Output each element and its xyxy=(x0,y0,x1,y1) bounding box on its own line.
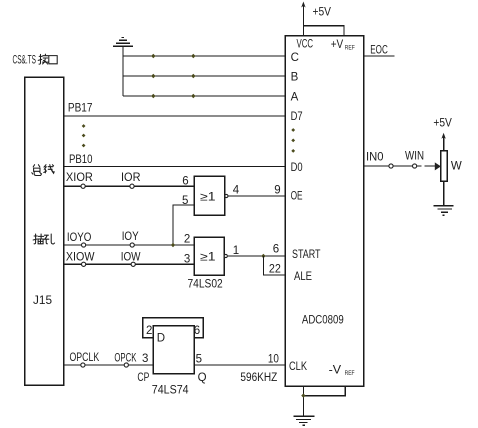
svg-text:PB17: PB17 xyxy=(68,103,93,115)
label 插孔 xyxy=(33,234,54,244)
svg-text:D: D xyxy=(157,333,165,345)
svg-text:START: START xyxy=(292,249,321,261)
svg-text:A: A xyxy=(291,92,299,104)
svg-text:2: 2 xyxy=(146,325,152,337)
svg-text:VCC: VCC xyxy=(297,39,314,51)
svg-text:EOC: EOC xyxy=(370,45,388,57)
wire -Vref to ground xyxy=(303,386,345,396)
title 口 glyph xyxy=(49,56,57,64)
wire IOYO xyxy=(64,244,194,246)
wire XIOW xyxy=(64,263,194,265)
test point circle XIOW xyxy=(82,262,86,266)
svg-text:2: 2 xyxy=(184,234,190,246)
svg-text:IOW: IOW xyxy=(121,252,141,264)
wire A line xyxy=(123,95,285,97)
+5V supply arrow (top) xyxy=(302,5,304,36)
svg-text:XIOR: XIOR xyxy=(66,172,93,184)
wire PB17/D7 xyxy=(64,115,285,117)
wire OPCLK xyxy=(64,364,153,366)
svg-text:IN0: IN0 xyxy=(366,152,384,164)
svg-text:6: 6 xyxy=(194,325,200,337)
svg-text:≥1: ≥1 xyxy=(200,252,216,264)
test point circle on XIOR xyxy=(81,184,85,188)
ground (right, below W) xyxy=(434,206,454,216)
svg-text:+V: +V xyxy=(331,39,344,51)
svg-text:3: 3 xyxy=(184,254,190,266)
svg-text:XIOW: XIOW xyxy=(66,252,95,264)
junction pin5/IOYO xyxy=(171,243,175,247)
wire Q to CLK xyxy=(194,364,285,366)
svg-text:1: 1 xyxy=(233,245,239,257)
svg-text:REF: REF xyxy=(345,370,355,377)
ellipsis D7..D0 xyxy=(291,128,295,153)
wire pin5 from IOYO xyxy=(173,205,194,245)
wire ALE branch xyxy=(263,256,285,275)
wire START net xyxy=(228,255,285,257)
output bubble U2A xyxy=(225,194,228,197)
svg-text:B: B xyxy=(291,72,299,84)
label 总线 xyxy=(32,165,54,176)
svg-text:ALE: ALE xyxy=(294,271,312,283)
wire C line xyxy=(123,55,285,57)
svg-text:74LS02: 74LS02 xyxy=(188,279,223,291)
svg-text:ADC0809: ADC0809 xyxy=(302,315,344,327)
wiper arrow into W xyxy=(435,162,441,170)
junction ground/-Vref xyxy=(301,393,305,397)
test point circle IN0 xyxy=(389,164,393,168)
D flip-flop U3 74LS74 body xyxy=(153,326,194,374)
svg-text:22: 22 xyxy=(269,264,281,276)
svg-text:IOY: IOY xyxy=(122,231,139,243)
test point circle IOR xyxy=(130,184,134,188)
svg-text:74LS74: 74LS74 xyxy=(152,385,189,397)
svg-text:6: 6 xyxy=(273,244,279,256)
svg-text:5: 5 xyxy=(196,354,202,366)
+5V supply arrow (right) xyxy=(443,136,445,151)
test point circle IOY xyxy=(130,243,134,247)
potentiometer W xyxy=(441,151,447,181)
svg-text:REF: REF xyxy=(345,45,355,52)
svg-text:CS&.TS: CS&.TS xyxy=(13,55,37,67)
svg-text:+5V: +5V xyxy=(313,7,332,19)
svg-text:-V: -V xyxy=(329,365,342,377)
svg-text:CLK: CLK xyxy=(289,361,307,373)
wire EOC xyxy=(364,55,395,57)
title 接 glyph xyxy=(38,54,48,64)
D flip-flop U3 74LS74 preset/clear box xyxy=(143,318,203,338)
svg-text:4: 4 xyxy=(233,185,240,197)
svg-text:W: W xyxy=(451,161,462,173)
NOR gate U2B 74LS02 xyxy=(194,237,224,275)
svg-text:C: C xyxy=(291,52,299,64)
svg-text:D0: D0 xyxy=(291,162,303,174)
test point circle WIN xyxy=(413,164,417,168)
svg-text:IOYO: IOYO xyxy=(67,232,92,244)
svg-text:PB10: PB10 xyxy=(69,154,93,166)
wire ADC ground stem xyxy=(302,386,304,416)
svg-text:6: 6 xyxy=(182,176,188,188)
wire +5V branch to +Vref xyxy=(303,26,344,36)
junction dots on A line xyxy=(151,94,195,98)
wire OE net xyxy=(229,195,285,197)
interface box J15 xyxy=(25,77,64,385)
test point circle IOYO xyxy=(82,243,86,247)
ground (bottom, ADC) xyxy=(293,416,314,425)
svg-text:10: 10 xyxy=(268,354,279,366)
svg-text:3: 3 xyxy=(142,353,148,365)
svg-text:≥1: ≥1 xyxy=(200,192,216,204)
junction START/ALE branch xyxy=(261,254,265,258)
svg-text:Q: Q xyxy=(198,372,207,384)
wire PB10/D0 xyxy=(64,165,285,167)
test point circle IOW xyxy=(131,262,135,266)
svg-text:CP: CP xyxy=(137,372,149,384)
wire ground stem to A xyxy=(122,46,124,96)
ADC0809 U1 box xyxy=(285,36,364,387)
svg-text:+5V: +5V xyxy=(433,118,452,130)
svg-text:9: 9 xyxy=(274,185,280,197)
wire B line xyxy=(123,75,285,77)
svg-text:WIN: WIN xyxy=(405,151,424,163)
svg-text:D7: D7 xyxy=(291,111,303,123)
wire IN0 xyxy=(364,165,437,167)
NOR gate U2A 74LS02 xyxy=(194,176,225,215)
ellipsis PB17..PB10 xyxy=(82,124,86,147)
wire W to ground xyxy=(443,181,445,205)
test point circle OPCK xyxy=(124,363,128,367)
svg-text:IOR: IOR xyxy=(121,172,141,184)
ground (top, for C B A inputs) xyxy=(113,37,133,46)
test point circle OPCLK xyxy=(81,363,85,367)
wire XIOR xyxy=(64,185,194,187)
svg-text:OPCLK: OPCLK xyxy=(70,352,100,364)
svg-text:596KHZ: 596KHZ xyxy=(240,372,277,384)
svg-text:J15: J15 xyxy=(33,295,52,307)
output bubble U2B xyxy=(224,254,227,257)
junction dots on C line xyxy=(151,54,195,58)
junction dots on B line xyxy=(151,74,195,78)
svg-text:OE: OE xyxy=(291,191,303,203)
